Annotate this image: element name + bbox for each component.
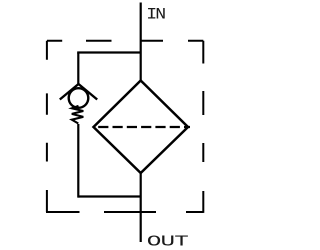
wire IN line (top vertical supply line) <box>140 3 142 81</box>
check valve seat (V) <box>60 84 97 100</box>
wire bypass top (tee from IN line to check valve) <box>77 51 141 53</box>
filter element dashed centerline <box>98 126 190 128</box>
svg-text:OUT: OUT <box>147 233 189 250</box>
dashed enclosure box, top edge <box>47 40 203 42</box>
dashed enclosure box, right edge <box>202 41 204 213</box>
check valve spring <box>72 106 84 124</box>
wire bypass bottom (returns to OUT line) <box>78 195 140 197</box>
filter element diamond <box>94 81 189 174</box>
wire check valve lower stem <box>77 124 79 198</box>
dashed enclosure box, left edge <box>46 41 48 212</box>
wire OUT line (bottom vertical return line) <box>140 173 142 243</box>
dashed enclosure box, bottom edge <box>46 211 203 213</box>
check valve ball <box>69 88 89 108</box>
svg-text:IN: IN <box>146 6 165 23</box>
wire check valve upper stem <box>77 53 79 85</box>
